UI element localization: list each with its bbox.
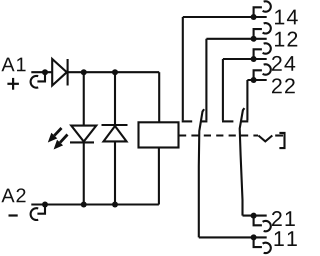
terminal clamp A2 bbox=[31, 202, 48, 221]
node LED branch bottom bbox=[81, 202, 87, 208]
wire terminal 14 bbox=[183, 16, 267, 18]
label 21 bbox=[272, 211, 295, 226]
wire to coil top bbox=[158, 72, 160, 122]
relay coil K1 bbox=[139, 122, 179, 147]
wire contact 24 vertical bbox=[222, 59, 224, 120]
contact 22 fixed tick bbox=[241, 120, 248, 122]
label 12 bbox=[275, 32, 297, 47]
label - bbox=[9, 214, 18, 216]
label 11 bbox=[275, 231, 297, 246]
linkage end bracket bbox=[279, 133, 284, 148]
node diode branch top bbox=[112, 69, 118, 75]
label 24 bbox=[272, 56, 295, 71]
node diode branch bottom bbox=[112, 202, 118, 208]
contact 14 fixed tick bbox=[182, 120, 193, 122]
label 22 bbox=[272, 78, 295, 93]
wire A1 rail left bbox=[31, 71, 52, 73]
wire D2 anode bottom bbox=[114, 141, 116, 204]
terminal clamp 21 bbox=[251, 213, 271, 232]
terminal clamp 11 bbox=[251, 234, 271, 253]
terminal clamp 24 bbox=[251, 43, 271, 62]
label plus bbox=[7, 78, 19, 90]
mechanical linkage dashed bbox=[179, 134, 258, 136]
wire terminal 22 bbox=[247, 79, 266, 81]
contact 24 fixed tick bbox=[222, 120, 233, 122]
LED arrow 2 bbox=[54, 135, 68, 150]
wire contact 22 vertical bbox=[246, 80, 248, 120]
LED D3 bbox=[70, 126, 96, 143]
label A2 bbox=[1, 188, 25, 202]
wire terminal 11 bbox=[199, 236, 267, 238]
wire terminal 24 bbox=[223, 58, 267, 60]
terminal clamp 14 bbox=[251, 1, 271, 20]
wire LED cathode bbox=[83, 142, 85, 204]
wire contact 12 vertical bbox=[205, 39, 207, 121]
diode D2 bbox=[102, 125, 128, 141]
wire terminal 21 bbox=[243, 215, 267, 217]
wire terminal 12 bbox=[206, 38, 266, 40]
wire LED anode bbox=[83, 72, 85, 125]
LED arrow 1 bbox=[48, 128, 62, 143]
label A1 bbox=[1, 58, 25, 72]
wire coil bottom bbox=[158, 148, 160, 205]
wire A2 rail bbox=[31, 203, 159, 205]
terminal clamp 22 bbox=[251, 64, 271, 83]
linkage actuator notch bbox=[258, 136, 272, 142]
terminal clamp 12 bbox=[251, 23, 271, 42]
contact arm 2 (21-22/24) bbox=[240, 108, 245, 216]
contact 12 fixed tick bbox=[201, 120, 208, 122]
node LED branch top bbox=[81, 69, 87, 75]
label 14 bbox=[275, 10, 298, 25]
linkage dash end bbox=[275, 134, 283, 136]
wire D2 cathode top bbox=[114, 72, 116, 125]
diode D1 bbox=[52, 59, 67, 86]
wire A1 rail right bbox=[68, 71, 160, 73]
terminal clamp A1 bbox=[31, 69, 48, 88]
contact arm 1 (11-12/14) bbox=[199, 109, 204, 237]
wire contact 14 vertical bbox=[182, 17, 184, 120]
